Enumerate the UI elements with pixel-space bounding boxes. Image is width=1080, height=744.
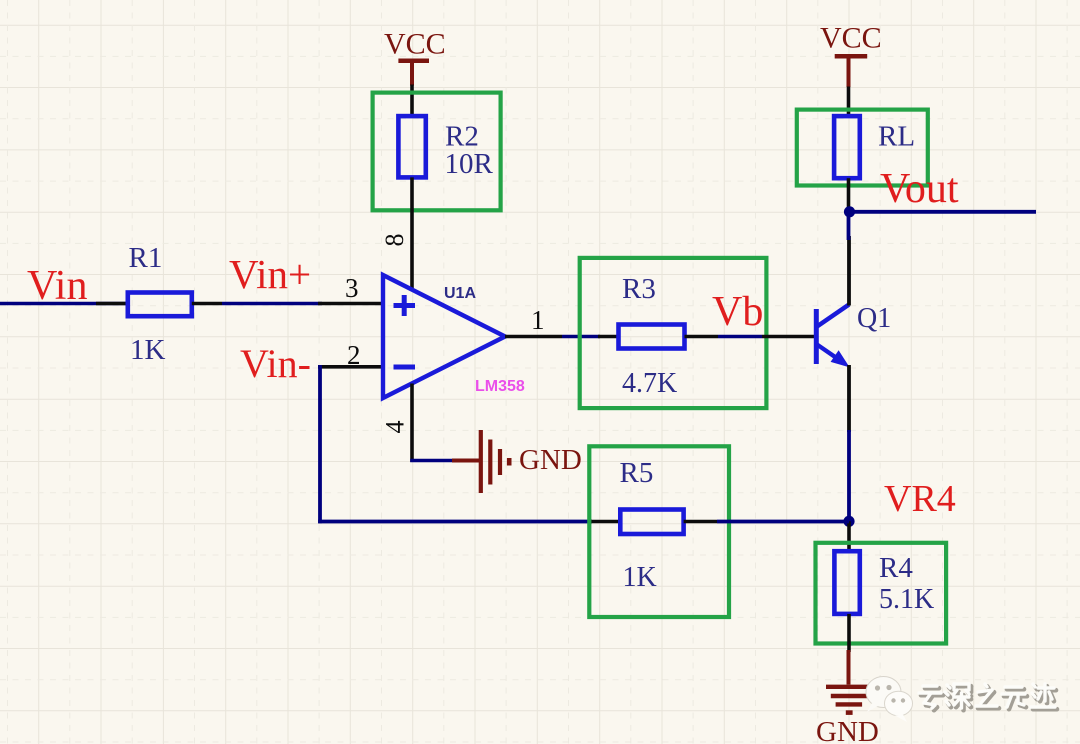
highlight box around RL bbox=[797, 110, 928, 186]
wire VR4 node to R4 bbox=[847, 521, 851, 552]
resistor R3 bbox=[619, 325, 685, 349]
svg-text:4: 4 bbox=[380, 421, 409, 434]
base pin wire of Q1 bbox=[762, 335, 814, 339]
watermark chat icon bbox=[866, 677, 913, 723]
pin 4 wire of op-amp bbox=[410, 384, 414, 463]
svg-text:R5: R5 bbox=[620, 457, 654, 489]
svg-text:Vin-: Vin- bbox=[240, 341, 311, 386]
svg-text:VCC: VCC bbox=[820, 22, 882, 55]
wire pin 4 to ground bbox=[410, 459, 453, 463]
watermark text (Chinese) bbox=[919, 684, 1057, 710]
pin 2 wire of op-amp bbox=[318, 365, 383, 369]
wire VCC to RL bbox=[847, 87, 851, 118]
feedback wire horizontal to R5 bbox=[318, 520, 592, 524]
svg-text:VR4: VR4 bbox=[884, 478, 956, 520]
svg-text:2: 2 bbox=[347, 340, 361, 370]
resistor R4 bbox=[834, 551, 859, 614]
svg-text:R1: R1 bbox=[129, 242, 163, 274]
svg-text:RL: RL bbox=[878, 121, 915, 153]
svg-text:1K: 1K bbox=[623, 562, 657, 593]
svg-text:U1A: U1A bbox=[444, 285, 476, 302]
wire Vout node to Q1 collector bbox=[847, 212, 851, 240]
resistor RL bbox=[834, 116, 860, 178]
svg-text:VCC: VCC bbox=[384, 28, 446, 61]
highlight box around R2 bbox=[373, 93, 501, 211]
resistor R1 bbox=[128, 293, 192, 317]
svg-text:GND: GND bbox=[519, 444, 582, 476]
resistor R5 bbox=[620, 510, 683, 535]
wire VCC to R2 bbox=[410, 85, 414, 118]
transistor Q1 (NPN) bbox=[816, 305, 849, 367]
node Vout junction dot bbox=[844, 206, 855, 217]
wire R3 to Q1 base bbox=[718, 335, 762, 339]
svg-text:8: 8 bbox=[380, 234, 409, 247]
collector pin wire of Q1 bbox=[847, 236, 851, 306]
highlight box around R3 bbox=[580, 258, 767, 408]
svg-text:3: 3 bbox=[345, 273, 359, 303]
svg-text:R3: R3 bbox=[622, 273, 656, 305]
resistor R2 bbox=[398, 116, 425, 177]
pin wire out of R1 (right) bbox=[192, 302, 222, 306]
pin 3 wire of op-amp bbox=[318, 302, 383, 306]
wire Q1 emitter to VR4 node bbox=[847, 430, 851, 522]
ground symbol GND (below R4) bbox=[826, 650, 872, 713]
wire op-amp output to R3 bbox=[562, 335, 600, 339]
pin wire into R5 (left) bbox=[590, 520, 621, 524]
pin wire into R1 (left) bbox=[96, 302, 128, 306]
pin wire out of R5 (right) bbox=[684, 520, 717, 524]
svg-text:Vout: Vout bbox=[880, 166, 959, 212]
emitter pin wire of Q1 bbox=[847, 365, 851, 432]
power symbol VCC (right) bbox=[835, 56, 868, 87]
svg-text:1: 1 bbox=[531, 305, 545, 335]
op-amp minus input marker bbox=[394, 365, 416, 370]
op-amp U1A (LM358) triangle bbox=[383, 275, 505, 398]
power symbol VCC (left) bbox=[398, 61, 429, 86]
op-amp plus input marker bbox=[394, 295, 416, 316]
svg-text:GND: GND bbox=[816, 716, 879, 744]
svg-text:Vin+: Vin+ bbox=[229, 251, 311, 297]
highlight box around R4 bbox=[816, 543, 947, 644]
wire Vout output (net) bbox=[850, 210, 1037, 214]
pin 1 wire of op-amp output bbox=[505, 335, 562, 339]
wire RL to Vout node bbox=[847, 178, 851, 212]
svg-text:LM358: LM358 bbox=[475, 378, 525, 395]
node VR4 junction dot bbox=[843, 516, 854, 527]
feedback wire Vin- vertical bbox=[318, 365, 322, 523]
svg-text:Vb: Vb bbox=[712, 289, 763, 335]
svg-text:1K: 1K bbox=[130, 334, 166, 366]
svg-text:4.7K: 4.7K bbox=[622, 368, 677, 399]
svg-text:5.1K: 5.1K bbox=[879, 584, 934, 615]
wire R5 to VR4 node bbox=[717, 520, 849, 524]
wire Vin input (net) bbox=[0, 302, 127, 306]
pin wire below R4 bbox=[847, 614, 851, 652]
highlight box around R5 bbox=[589, 446, 729, 617]
wire R1 to op-amp pin 3 bbox=[222, 302, 322, 306]
svg-text:Q1: Q1 bbox=[857, 303, 891, 334]
wire R2 to op-amp pin 8 bbox=[410, 177, 414, 290]
pin wire out of R3 (right) bbox=[685, 335, 719, 339]
pin wire into R3 (left) bbox=[598, 335, 620, 339]
svg-text:10R: 10R bbox=[445, 148, 494, 180]
svg-text:R4: R4 bbox=[879, 552, 913, 584]
ground symbol GND (op-amp supply) bbox=[452, 430, 509, 493]
